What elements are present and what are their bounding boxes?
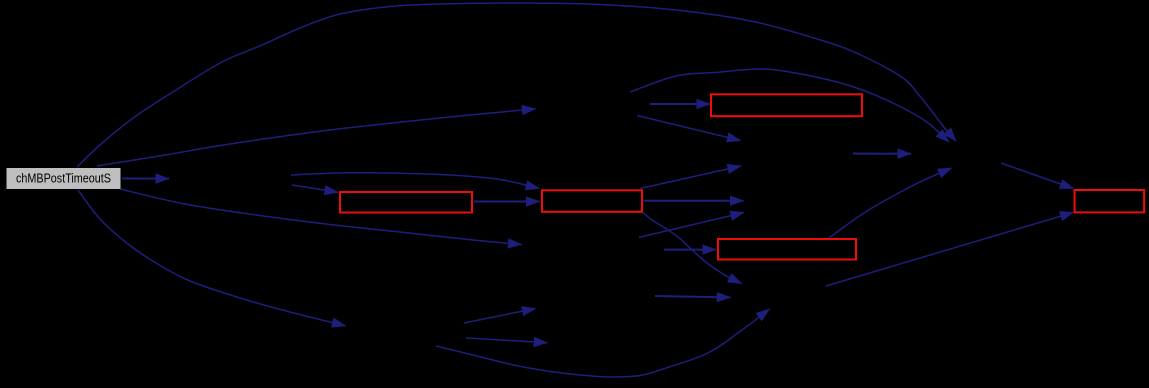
edge boxB->boxC — [474, 201, 540, 203]
edge boxC->nodeP — [643, 213, 742, 284]
edge chMBPostTimeoutS->nodeB1 — [78, 190, 346, 326]
edge chMBPostTimeoutS->nodeQ — [120, 189, 522, 245]
edge nodeR->boxE — [1001, 163, 1074, 189]
edge nodeH1->boxB — [292, 185, 338, 192]
edge chMBPostTimeoutS->nodeR (top arc) — [77, 3, 956, 167]
edge nodeB1->nodeN2 — [466, 338, 547, 343]
edge nodeQ->boxD — [664, 249, 716, 251]
edge nodeB1->nodeP (bottom dip) — [436, 309, 770, 377]
svg-text:chMBPostTimeoutS: chMBPostTimeoutS — [16, 171, 111, 186]
edge nodeP->boxE — [826, 212, 1074, 286]
edge boxC->nodeM1 — [640, 166, 741, 189]
edge boxC->nodeM2 — [644, 200, 744, 202]
red node boxB — [340, 192, 472, 213]
red node boxE — [1075, 190, 1145, 212]
edge chMBPostTimeoutS->nodeC2 — [97, 109, 536, 166]
edge boxD->nodeR — [829, 168, 952, 238]
edge nodeQ->nodeM2 — [639, 213, 744, 238]
edge nodeC2->nodeM1 — [637, 116, 741, 141]
edge nodeB1->nodeN1 — [464, 309, 536, 324]
red node boxC — [542, 190, 642, 212]
red node boxA — [711, 94, 862, 116]
edge nodeC2->nodeR (arc over boxA) — [630, 69, 949, 142]
edge nodeC2->boxA — [650, 103, 710, 105]
edge nodeH1->boxC — [291, 173, 539, 189]
edge chMBPostTimeoutS->nodeH1 — [122, 178, 169, 180]
edge nodeM1->nodeR — [853, 153, 911, 155]
grey start node chMBPostTimeoutS — [7, 168, 121, 189]
red node boxD — [718, 239, 856, 260]
edge nodeN1->nodeP — [655, 296, 730, 297]
